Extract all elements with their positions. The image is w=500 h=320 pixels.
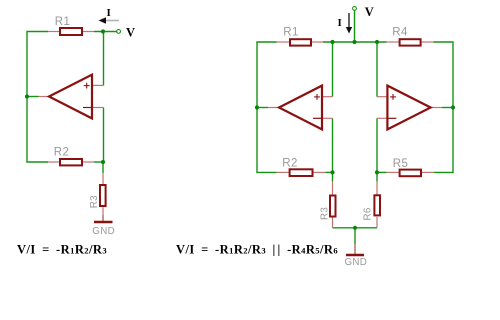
svg-text:R3: R3 (89, 195, 100, 208)
svg-text:I: I (338, 17, 342, 29)
svg-text:GND: GND (345, 257, 368, 268)
svg-text:V/I = -R1R2/R3: V/I = -R1R2/R3 (17, 243, 107, 257)
svg-text:R5: R5 (393, 158, 409, 170)
svg-text:R2: R2 (282, 158, 298, 170)
svg-text:R1: R1 (55, 16, 71, 28)
svg-text:V/I = -R1R2/R3 || -R4R5/R6: V/I = -R1R2/R3 || -R4R5/R6 (176, 243, 338, 257)
svg-text:R1: R1 (283, 27, 299, 39)
svg-text:R6: R6 (363, 207, 374, 220)
svg-text:I: I (107, 7, 111, 19)
svg-text:V: V (365, 5, 374, 19)
svg-text:R2: R2 (54, 147, 70, 159)
svg-text:R4: R4 (392, 27, 408, 39)
svg-text:GND: GND (92, 226, 115, 237)
svg-text:V: V (126, 26, 135, 40)
svg-text:R3: R3 (320, 207, 331, 220)
